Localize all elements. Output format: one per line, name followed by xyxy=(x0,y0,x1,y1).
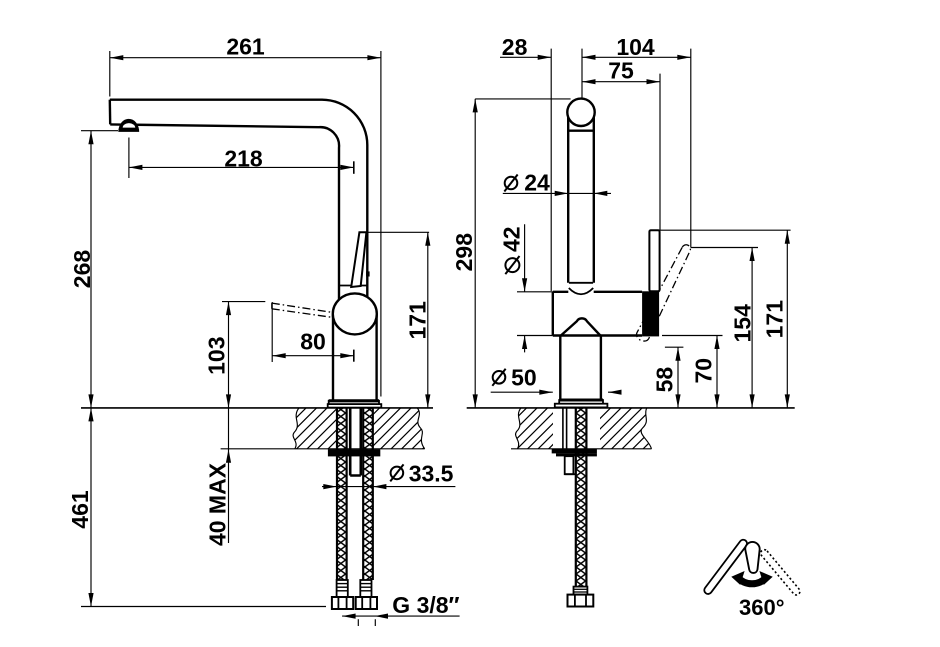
svg-text:75: 75 xyxy=(608,58,634,84)
svg-text:298: 298 xyxy=(451,233,477,272)
svg-text:70: 70 xyxy=(691,358,717,384)
svg-text:154: 154 xyxy=(730,304,756,343)
svg-text:171: 171 xyxy=(762,300,788,339)
svg-text:218: 218 xyxy=(224,146,263,172)
svg-text:80: 80 xyxy=(300,329,326,355)
svg-text:58: 58 xyxy=(652,367,678,393)
svg-text:G 3/8″: G 3/8″ xyxy=(392,592,459,618)
svg-text:103: 103 xyxy=(204,337,230,375)
svg-text:28: 28 xyxy=(502,34,528,60)
svg-text:104: 104 xyxy=(616,34,655,60)
svg-text:40 MAX: 40 MAX xyxy=(205,462,231,546)
svg-text:360°: 360° xyxy=(739,595,785,620)
svg-text:461: 461 xyxy=(67,490,93,529)
svg-text:33.5: 33.5 xyxy=(409,461,454,487)
svg-text:42: 42 xyxy=(499,226,525,252)
svg-text:261: 261 xyxy=(226,34,265,60)
svg-text:50: 50 xyxy=(511,365,537,391)
svg-text:24: 24 xyxy=(524,170,550,196)
svg-text:171: 171 xyxy=(405,301,431,340)
svg-text:268: 268 xyxy=(69,250,95,289)
